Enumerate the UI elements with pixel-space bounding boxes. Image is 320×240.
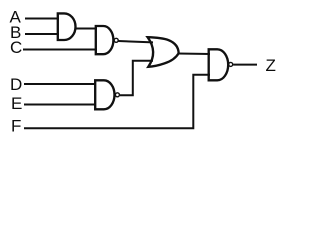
wire C to NAND U2	[23, 49, 97, 51]
wire E to NAND U3	[24, 104, 96, 106]
wire A to AND gate	[25, 18, 59, 20]
OR gate U4	[148, 37, 179, 67]
wire NAND U2 output to OR gate	[118, 41, 153, 42]
NAND gate U2 (inputs from U1 and C)	[96, 26, 114, 54]
svg-text:D: D	[10, 75, 22, 94]
svg-text:C: C	[10, 38, 22, 57]
svg-text:Z: Z	[266, 56, 276, 75]
wire NAND U3 output up to OR gate lower input	[120, 61, 153, 95]
NAND gate U5 (inputs from U4 and F)	[209, 49, 228, 80]
wire NAND U5 output to Z	[233, 64, 257, 66]
svg-text:F: F	[11, 117, 21, 136]
wire OR U4 output to NAND U5	[178, 53, 211, 56]
NAND gate U3 (inputs D,E)	[95, 80, 114, 109]
NAND U2 output bubble	[114, 38, 118, 42]
svg-text:E: E	[11, 94, 22, 113]
NAND U3 output bubble	[115, 93, 119, 97]
wire F to NAND U5 (bottom route, up riser, into gate)	[24, 75, 210, 129]
wire D to NAND U3	[24, 83, 96, 85]
wire AND U1 output to NAND U2	[75, 28, 97, 30]
AND gate U1	[58, 13, 76, 40]
wire B to AND gate	[25, 33, 59, 35]
NAND U5 output bubble	[229, 62, 233, 66]
